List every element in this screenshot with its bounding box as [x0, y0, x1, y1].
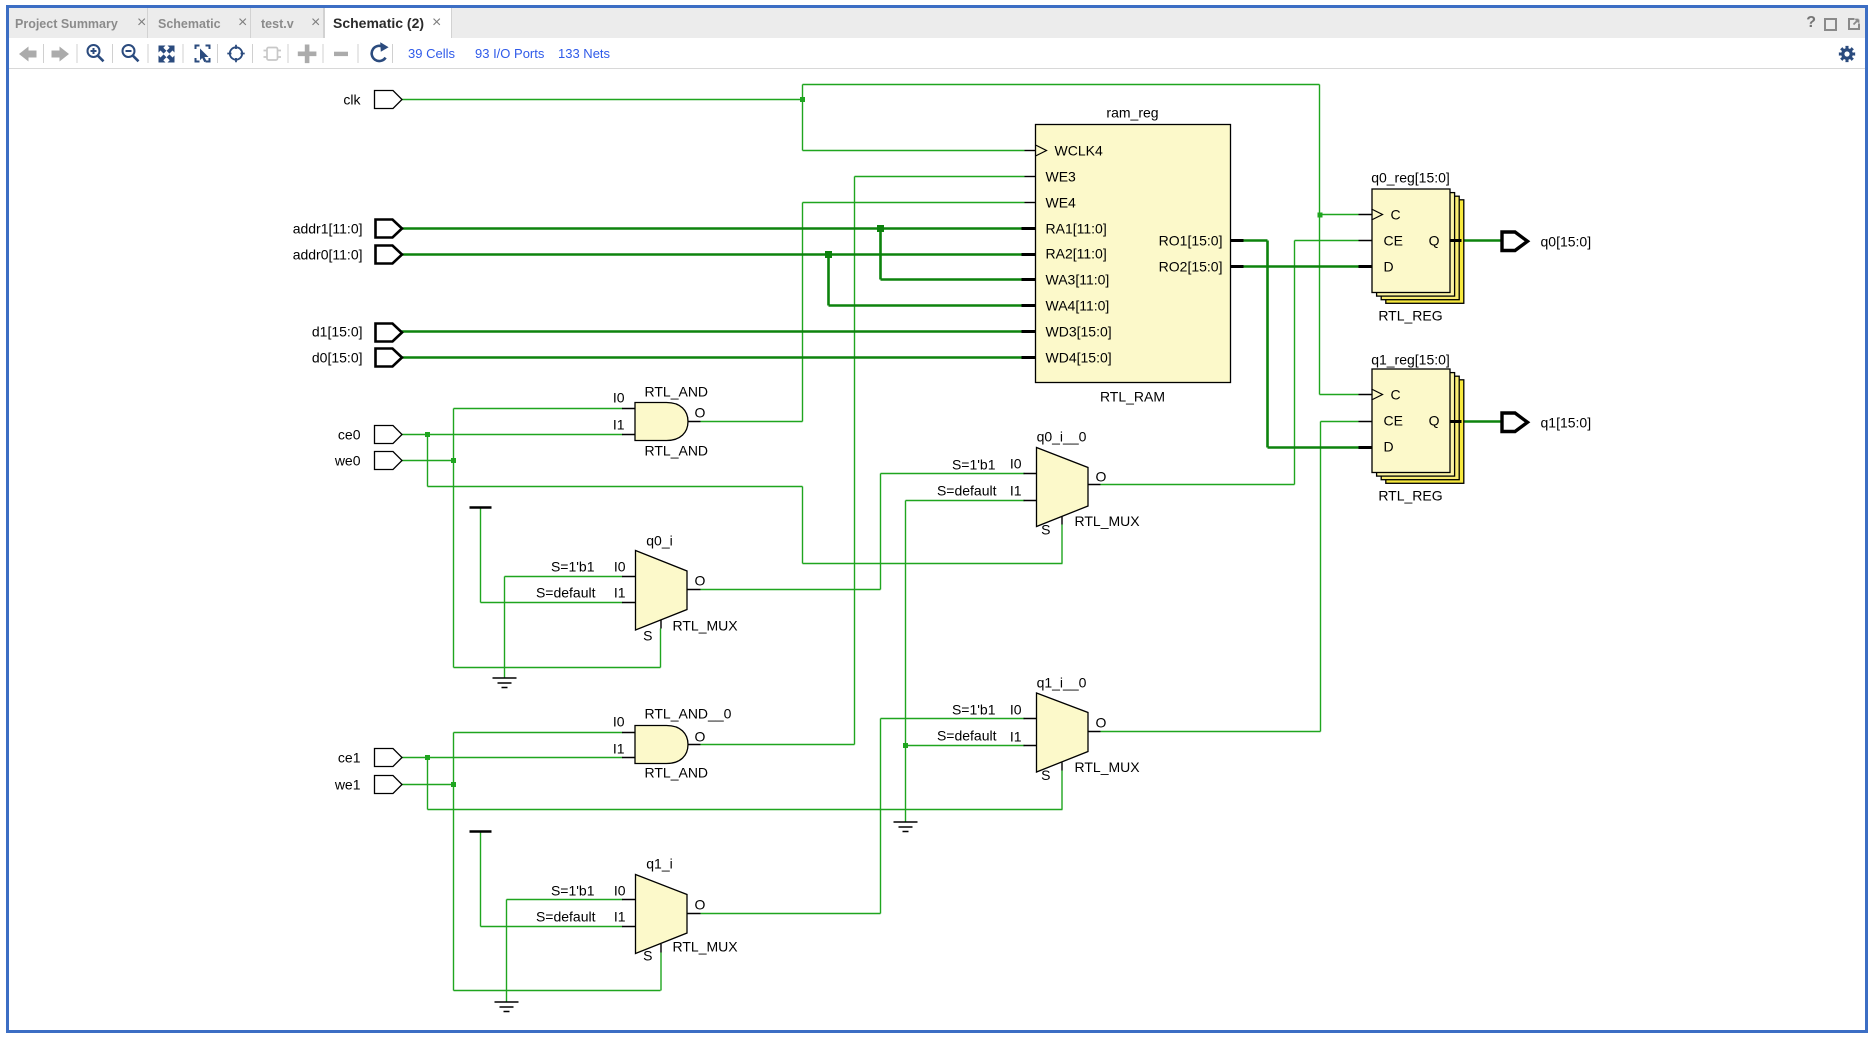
wire net q0_i__0 output: [1101, 241, 1359, 485]
toolbar: [9, 38, 1865, 69]
svg-text:I0: I0: [614, 883, 626, 899]
pin stub WA3: [1022, 278, 1036, 281]
svg-text:I1: I1: [613, 741, 625, 757]
wire net const1 to q1_i I1: [481, 832, 623, 927]
svg-text:I0: I0: [614, 559, 626, 575]
svg-text:O: O: [695, 573, 706, 589]
svg-text:S=default: S=default: [536, 909, 596, 925]
mux q1_i__0 RTL_MUX: [1037, 693, 1089, 772]
svg-text:WE3: WE3: [1046, 169, 1077, 185]
svg-text:RTL_MUX: RTL_MUX: [673, 618, 739, 634]
svg-text:D: D: [1384, 259, 1394, 275]
wire net we3 (RTL_AND__0 output): [701, 177, 1025, 745]
svg-text:WA4[11:0]: WA4[11:0]: [1046, 298, 1110, 314]
power symbol 1'b1 (q1_i): [470, 830, 492, 832]
junction clk at (1318,214): [1318, 213, 1323, 218]
wire bus addr1: [402, 229, 1022, 280]
input port we0: [375, 452, 403, 470]
svg-text:O: O: [695, 729, 706, 745]
svg-text:RTL_AND: RTL_AND: [645, 443, 709, 459]
input port we1: [375, 776, 403, 794]
svg-text:C: C: [1391, 387, 1401, 403]
svg-text:I0: I0: [1010, 702, 1022, 718]
input port addr0[11:0]: [376, 246, 403, 264]
input port d0[15:0]: [376, 349, 403, 367]
svg-text:I1: I1: [614, 909, 626, 925]
input port clk: [375, 91, 403, 109]
svg-text:S: S: [1041, 522, 1050, 538]
pin stub WA4: [1022, 304, 1036, 307]
input port ce1: [375, 749, 403, 767]
svg-text:WCLK4: WCLK4: [1055, 143, 1103, 159]
power symbol 1'b1 (q0_i): [470, 506, 492, 508]
svg-text:ce1: ce1: [338, 750, 361, 766]
wire net q1_i__0 output: [1101, 422, 1359, 732]
svg-text:O: O: [695, 405, 706, 421]
svg-text:RA2[11:0]: RA2[11:0]: [1046, 246, 1107, 262]
wire net we0: [402, 409, 661, 668]
svg-text:RTL_REG: RTL_REG: [1378, 308, 1442, 324]
pin stub q1_i__0 mux pins: [1024, 719, 1101, 771]
wire bus RO1 to q1_reg D: [1244, 241, 1359, 448]
clock wedge q1_reg C: [1372, 389, 1383, 400]
svg-text:RTL_AND: RTL_AND: [645, 765, 709, 781]
svg-text:RTL_MUX: RTL_MUX: [1075, 759, 1141, 775]
svg-text:S: S: [643, 948, 652, 964]
svg-text:I1: I1: [1010, 483, 1022, 499]
output port q1[15:0]: [1502, 413, 1528, 432]
svg-text:I0: I0: [613, 390, 625, 406]
wire bus d1: [402, 330, 1022, 333]
svg-text:S=default: S=default: [937, 728, 997, 744]
svg-text:RA1[11:0]: RA1[11:0]: [1046, 221, 1107, 237]
svg-text:RTL_REG: RTL_REG: [1378, 488, 1442, 504]
svg-text:q1_reg[15:0]: q1_reg[15:0]: [1371, 352, 1450, 368]
pin stub q0_reg Q: [1450, 239, 1462, 242]
svg-text:I1: I1: [1010, 729, 1022, 745]
wire bus addr0: [402, 255, 1022, 306]
mux q1_i RTL_MUX: [636, 875, 688, 954]
svg-text:S=1'b1: S=1'b1: [952, 457, 996, 473]
wire net clk: [402, 85, 1359, 395]
junction ce0 at (427,434): [425, 432, 430, 437]
svg-text:O: O: [1096, 469, 1107, 485]
svg-text:O: O: [1096, 715, 1107, 731]
svg-text:q0_reg[15:0]: q0_reg[15:0]: [1371, 170, 1450, 186]
junction addr1 at (880,228): [877, 225, 884, 232]
junction ce1 at (427,757): [425, 755, 430, 760]
svg-text:q1[15:0]: q1[15:0]: [1541, 415, 1592, 431]
svg-text:RTL_MUX: RTL_MUX: [1075, 513, 1141, 529]
mux q0_i__0 RTL_MUX: [1037, 448, 1089, 527]
pin stub RO2: [1231, 265, 1244, 268]
svg-text:clk: clk: [343, 92, 361, 108]
svg-text:RTL_AND__0: RTL_AND__0: [645, 706, 732, 722]
wire net we4 (RTL_AND output): [701, 203, 1025, 422]
ground (q0_i I0): [493, 678, 517, 688]
wire bus q0_reg Q to port: [1462, 239, 1503, 242]
wire bus d0: [402, 356, 1022, 359]
svg-text:RO1[15:0]: RO1[15:0]: [1159, 233, 1223, 249]
svg-text:CE: CE: [1384, 413, 1403, 429]
pin stub WD3: [1022, 330, 1036, 333]
svg-text:S: S: [1041, 767, 1050, 783]
svg-text:Q: Q: [1429, 233, 1440, 249]
input port ce0: [375, 426, 403, 444]
pin stub q1_reg D: [1359, 446, 1372, 449]
svg-text:ce0: ce0: [338, 427, 361, 443]
svg-text:RTL_RAM: RTL_RAM: [1100, 389, 1165, 405]
svg-text:C: C: [1391, 207, 1401, 223]
svg-text:WA3[11:0]: WA3[11:0]: [1046, 272, 1110, 288]
pin stub AND1 I0: [622, 409, 701, 435]
svg-text:I0: I0: [1010, 456, 1022, 472]
svg-text:CE: CE: [1384, 233, 1403, 249]
pin stub q1_i mux pins: [622, 900, 701, 953]
svg-text:O: O: [695, 897, 706, 913]
output port q0[15:0]: [1502, 232, 1528, 251]
svg-text:I1: I1: [614, 585, 626, 601]
junction addr0 at (828,254): [825, 251, 832, 258]
svg-text:d0[15:0]: d0[15:0]: [312, 350, 363, 366]
pin stub q1_reg C CE: [1359, 395, 1372, 422]
svg-text:S=1'b1: S=1'b1: [551, 559, 595, 575]
pin stub WD4: [1022, 356, 1036, 359]
junction const0 at (905,745): [903, 743, 908, 748]
svg-text:we1: we1: [334, 777, 361, 793]
pin stub RA1: [1022, 227, 1036, 230]
input port d1[15:0]: [376, 324, 403, 342]
mux q0_i RTL_MUX: [636, 551, 688, 631]
svg-text:S=1'b1: S=1'b1: [551, 883, 595, 899]
svg-text:I0: I0: [613, 714, 625, 730]
svg-text:Q: Q: [1429, 413, 1440, 429]
pin stub AND2 pins: [622, 733, 701, 758]
and-gate RTL_AND__0 (ce1/we1): [635, 726, 688, 764]
svg-text:addr0[11:0]: addr0[11:0]: [293, 247, 363, 263]
svg-text:q0_i__0: q0_i__0: [1037, 429, 1087, 445]
wire net const1 to q0_i I1: [481, 508, 623, 603]
input port addr1[11:0]: [376, 220, 403, 238]
and-gate RTL_AND (ce0/we0): [635, 403, 688, 441]
pin stub q0_i mux pins: [622, 577, 701, 629]
svg-text:ram_reg: ram_reg: [1106, 105, 1158, 121]
wire bus q1_reg Q to port: [1462, 420, 1503, 423]
svg-text:D: D: [1384, 439, 1394, 455]
wire net q0_i output: [701, 474, 1025, 590]
svg-text:we0: we0: [334, 453, 361, 469]
svg-text:q1_i__0: q1_i__0: [1037, 675, 1087, 691]
svg-text:q0[15:0]: q0[15:0]: [1541, 234, 1592, 250]
junction we0 at (453,460): [451, 458, 456, 463]
wire net q1_i output: [701, 719, 1025, 914]
RTL_RAM ram_reg body: [1036, 125, 1231, 383]
svg-text:S: S: [643, 628, 652, 644]
svg-text:S=default: S=default: [536, 585, 596, 601]
tab bar: [9, 8, 1865, 38]
svg-text:RTL_AND: RTL_AND: [645, 384, 709, 400]
junction we1 at (453,784): [451, 782, 456, 787]
pin stub q0_reg C CE: [1359, 215, 1372, 241]
pin stub q0_i__0 mux pins: [1024, 474, 1101, 525]
wire net const0 to q0_i I0: [505, 577, 623, 678]
svg-text:S=default: S=default: [937, 483, 997, 499]
wire net we1: [402, 733, 662, 991]
wire net ce0: [402, 435, 1063, 564]
svg-text:addr1[11:0]: addr1[11:0]: [293, 221, 363, 237]
svg-text:S=1'b1: S=1'b1: [952, 702, 996, 718]
svg-text:q1_i: q1_i: [646, 856, 672, 872]
svg-text:RO2[15:0]: RO2[15:0]: [1159, 259, 1223, 275]
ground (q1_i I0): [495, 1002, 519, 1012]
wire net ce1: [402, 758, 1063, 810]
pin stub WCLK4: [1025, 150, 1036, 152]
pin stub WE4: [1025, 202, 1036, 204]
pin stub q1_reg Q: [1450, 420, 1462, 423]
register q0_reg[15:0] RTL_REG stack: [1386, 200, 1464, 303]
wire bus RO2 to q0_reg D: [1244, 265, 1359, 268]
svg-text:I1: I1: [613, 417, 625, 433]
svg-text:q0_i: q0_i: [646, 533, 672, 549]
pin stub q0_reg D: [1359, 265, 1372, 268]
svg-text:WE4: WE4: [1046, 195, 1077, 211]
clock wedge WCLK4: [1036, 145, 1047, 156]
pin stub WE3: [1025, 176, 1036, 178]
ground (I1 nets of q0_i__0 / q1_i__0): [894, 822, 918, 832]
pin stub RA2: [1022, 253, 1036, 256]
pin stub RO1: [1231, 239, 1244, 242]
junction clk at (802,99): [800, 97, 805, 102]
clock wedge q0_reg C: [1372, 209, 1383, 220]
wire net const0 to q1_i I0: [507, 900, 623, 1002]
wire net const0 to I1 of q0_i__0 and q1_i__0: [906, 501, 1025, 822]
svg-text:RTL_MUX: RTL_MUX: [673, 939, 739, 955]
register q1_reg[15:0] RTL_REG stack: [1386, 380, 1464, 484]
svg-text:WD3[15:0]: WD3[15:0]: [1046, 324, 1112, 340]
svg-text:d1[15:0]: d1[15:0]: [312, 324, 363, 340]
svg-text:WD4[15:0]: WD4[15:0]: [1046, 350, 1112, 366]
